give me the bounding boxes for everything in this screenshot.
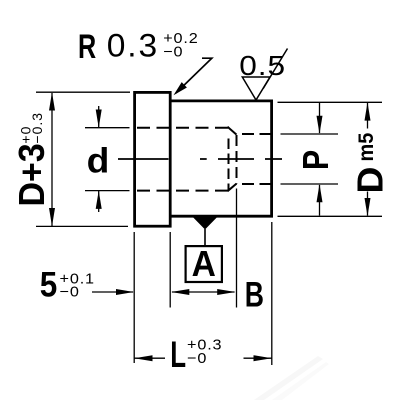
svg-text:D: D	[350, 167, 391, 194]
svg-text:−0: −0	[60, 284, 80, 300]
arrowhead D+3 top	[49, 92, 55, 110]
small bore P hidden lines	[242, 134, 272, 184]
extension line body-left lower	[169, 232, 171, 308]
svg-text:D+3: D+3	[12, 143, 52, 206]
datum stem	[204, 229, 206, 246]
arrowhead L right	[254, 355, 272, 361]
arrowhead d top	[96, 110, 102, 128]
svg-text:d: d	[87, 140, 110, 180]
arrowhead L left	[134, 355, 152, 361]
extension line hole-depth lower	[236, 189, 238, 308]
chamfer hidden edges	[228, 127, 237, 191]
extension lines left for d	[85, 128, 130, 191]
svg-text:−0: −0	[187, 351, 207, 367]
bore d hidden lines	[137, 128, 229, 191]
extension lines right for Dm5	[278, 102, 383, 216]
svg-text:R: R	[78, 29, 96, 67]
dimension line B	[172, 291, 235, 293]
dimension line 5	[92, 291, 133, 293]
watermark streak	[254, 356, 329, 400]
arrowhead Dm5 bottom	[365, 198, 371, 216]
svg-text:B: B	[245, 275, 264, 314]
extension line flange-left lower	[133, 232, 135, 363]
centerline	[118, 158, 282, 160]
arrowhead leader	[174, 82, 187, 95]
surface finish symbol	[242, 49, 287, 101]
leader R0.3	[176, 58, 212, 93]
svg-text:m5: m5	[355, 133, 379, 162]
small bore end hidden line	[236, 135, 238, 184]
datum triangle	[193, 217, 217, 229]
dimension line Dm5	[367, 103, 369, 216]
datum box A	[186, 246, 222, 282]
extension lines right for P	[281, 134, 339, 184]
dimension line D+3	[51, 93, 53, 226]
flange outline	[135, 92, 171, 226]
svg-text:A: A	[192, 244, 216, 285]
extension lines left for D+3	[36, 92, 130, 226]
body outline	[170, 101, 271, 216]
arrowhead P top	[317, 116, 323, 134]
svg-text:0.5: 0.5	[239, 51, 286, 82]
arrowhead Dm5 top	[365, 102, 371, 120]
arrowhead d bottom	[96, 191, 102, 209]
svg-text:−0: −0	[163, 44, 183, 60]
arrowhead B right	[217, 289, 235, 295]
extension line body-right lower	[271, 222, 273, 365]
dimension arrows d	[98, 106, 100, 212]
svg-text:L: L	[170, 333, 186, 375]
svg-text:P: P	[296, 150, 336, 170]
counterbore bottom hidden line	[228, 139, 230, 191]
arrowhead B left	[171, 289, 189, 295]
arrowhead D+3 bottom	[49, 208, 55, 226]
dimension line L	[134, 357, 272, 359]
arrowhead 5	[116, 289, 134, 295]
dimension arrows P	[319, 103, 321, 216]
svg-text:−0.3: −0.3	[29, 112, 45, 144]
svg-text:0.3: 0.3	[107, 27, 159, 63]
svg-text:5: 5	[40, 266, 58, 305]
arrowhead P bottom	[317, 184, 323, 202]
